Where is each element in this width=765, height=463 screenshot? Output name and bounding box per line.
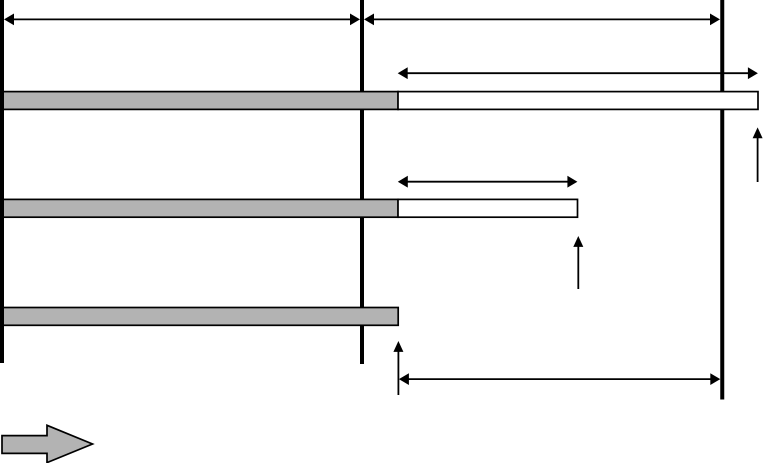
row 1 white extension bar [398,92,758,110]
bottom double arrow span [399,373,720,385]
row 2 gray task bar [0,199,398,217]
row 2 duration double arrow [398,176,578,188]
up arrow row 2 [573,236,583,289]
block arrow time direction [2,425,93,462]
vertical milestone line left [0,0,4,363]
up arrow row 3 [393,341,403,395]
top double arrow left span [4,14,360,26]
row 2 white extension bar [398,199,578,217]
top double arrow right span [364,14,720,26]
row 1 gray task bar [0,92,398,110]
up arrow row 1 [753,127,763,182]
row 1 duration double arrow [398,67,758,79]
vertical milestone line middle [360,0,364,364]
row 3 gray task bar [0,308,398,326]
vertical milestone line right [720,0,724,400]
